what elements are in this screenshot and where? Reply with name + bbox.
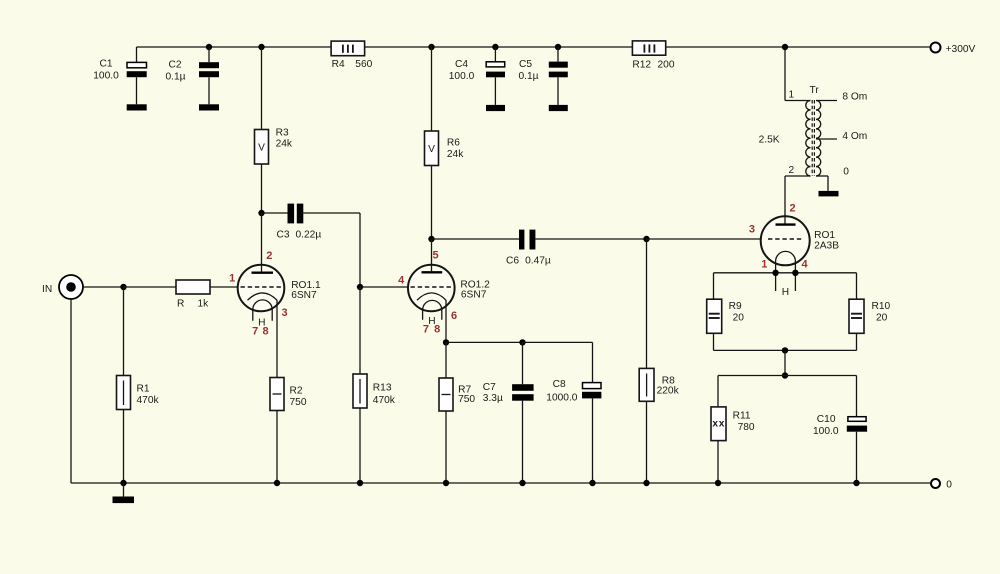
resistor R6	[425, 44, 465, 239]
wire tap 0	[816, 175, 828, 177]
resistor R4	[331, 41, 373, 70]
svg-text:24k: 24k	[276, 138, 293, 149]
svg-text:3: 3	[282, 307, 288, 319]
tube RO1.2	[398, 250, 490, 336]
svg-text:6SN7: 6SN7	[461, 289, 487, 300]
svg-text:C1: C1	[99, 59, 112, 70]
tube RO1.1	[229, 250, 321, 337]
svg-text:24k: 24k	[447, 149, 464, 160]
svg-text:1000.0: 1000.0	[546, 392, 577, 403]
svg-text:C3: C3	[277, 230, 290, 241]
svg-text:R10: R10	[872, 301, 891, 312]
svg-text:2: 2	[788, 165, 794, 176]
svg-text:7: 7	[423, 323, 429, 335]
svg-text:4: 4	[398, 275, 405, 287]
svg-text:7: 7	[252, 326, 258, 338]
svg-text:R3: R3	[276, 128, 289, 139]
resistor R7	[439, 378, 475, 483]
ground C5	[549, 105, 568, 111]
svg-text:470k: 470k	[137, 395, 160, 406]
ground C4	[486, 105, 505, 111]
svg-text:R4: R4	[332, 59, 345, 70]
wire top supply rail	[137, 46, 931, 48]
svg-text:2: 2	[789, 203, 795, 215]
svg-text:560: 560	[355, 59, 372, 70]
svg-text:C6: C6	[506, 256, 519, 267]
svg-text:R2: R2	[290, 386, 303, 397]
svg-text:20: 20	[876, 312, 888, 323]
transformer Tr primary feed	[784, 47, 786, 101]
wire C3 to grid of RO1.2	[359, 213, 361, 287]
ground C1	[127, 104, 147, 110]
svg-text:0.47µ: 0.47µ	[525, 256, 551, 267]
wire bottom ground rail	[71, 482, 931, 484]
svg-text:R9: R9	[729, 301, 742, 312]
capacitor C2	[165, 44, 219, 105]
svg-text:3: 3	[749, 224, 755, 236]
svg-text:xx: xx	[712, 418, 725, 429]
svg-text:4: 4	[802, 258, 809, 270]
svg-text:1k: 1k	[198, 298, 210, 309]
resistor R8	[639, 239, 679, 483]
wire to cathode bias row	[784, 350, 786, 375]
svg-text:0: 0	[843, 167, 849, 178]
capacitor C10	[813, 376, 867, 484]
svg-text:Tr: Tr	[810, 85, 820, 96]
capacitor C6	[428, 230, 646, 267]
svg-text:H: H	[782, 287, 789, 298]
wire IN to R	[83, 286, 124, 288]
resistor R9	[707, 273, 745, 351]
svg-text:8: 8	[263, 326, 269, 338]
resistor R2	[270, 378, 307, 484]
wire anode RO1.2	[431, 239, 433, 272]
svg-text:1: 1	[229, 273, 235, 285]
tube RO1	[749, 203, 839, 298]
svg-text:750: 750	[290, 397, 307, 408]
resistor R11	[711, 376, 755, 484]
wire filament row RO1	[714, 272, 857, 274]
resistor R3	[255, 44, 293, 213]
svg-text:6SN7: 6SN7	[291, 290, 317, 301]
capacitor C4	[449, 44, 505, 105]
svg-text:780: 780	[738, 422, 755, 433]
terminal +300V	[931, 43, 941, 53]
resistor R12	[632, 41, 674, 70]
resistor R1	[117, 287, 160, 483]
svg-text:8 Om: 8 Om	[842, 92, 867, 103]
wire C6 to grid of RO1	[643, 236, 649, 242]
capacitor C3	[258, 204, 360, 241]
svg-text:5: 5	[432, 250, 438, 262]
resistor R13	[353, 287, 396, 483]
svg-text:0.22µ: 0.22µ	[296, 230, 322, 241]
svg-text:20: 20	[733, 312, 745, 323]
ground transformer	[819, 191, 839, 197]
terminal 0	[931, 479, 940, 488]
svg-text:C8: C8	[553, 379, 566, 390]
svg-text:R11: R11	[733, 411, 751, 422]
svg-text:C2: C2	[168, 60, 181, 71]
svg-text:100.0: 100.0	[813, 426, 839, 437]
svg-text:2A3B: 2A3B	[814, 240, 839, 251]
wire R9 R10 bottom row	[714, 349, 857, 351]
svg-text:0: 0	[946, 479, 952, 490]
wire R to grid of RO1.1	[210, 286, 238, 288]
svg-text:IN: IN	[42, 284, 52, 295]
svg-text:C4: C4	[455, 59, 468, 70]
svg-text:R12: R12	[632, 59, 651, 70]
svg-text:C10: C10	[817, 414, 836, 425]
svg-text:100.0: 100.0	[93, 71, 119, 82]
capacitor C1	[93, 47, 146, 104]
svg-text:R6: R6	[447, 138, 460, 149]
svg-text:0.1µ: 0.1µ	[165, 72, 185, 83]
svg-text:2.5K: 2.5K	[759, 135, 780, 146]
svg-text:750: 750	[458, 394, 475, 405]
capacitor C5	[518, 44, 567, 105]
ground C2	[199, 104, 219, 110]
svg-text:C7: C7	[483, 382, 496, 393]
capacitor C8	[546, 379, 601, 483]
svg-text:8: 8	[434, 323, 440, 335]
wire anode RO1.1	[261, 213, 263, 272]
svg-text:470k: 470k	[373, 395, 396, 406]
capacitor C7	[483, 342, 534, 483]
svg-text:+300V: +300V	[946, 44, 976, 55]
svg-text:0.1µ: 0.1µ	[518, 71, 538, 82]
svg-text:220k: 220k	[657, 386, 680, 397]
svg-text:V: V	[428, 144, 435, 155]
wire cathode row to C7 C8	[446, 341, 523, 343]
wire left column from IN	[70, 299, 72, 483]
transformer Tr	[759, 85, 821, 176]
resistor R10	[849, 273, 891, 351]
wire tap 8 Om	[816, 100, 837, 102]
svg-text:100.0: 100.0	[449, 71, 475, 82]
svg-text:3.3µ: 3.3µ	[483, 393, 503, 404]
svg-text:2: 2	[266, 250, 272, 262]
svg-text:R1: R1	[137, 384, 150, 395]
wire tap 4 Om	[816, 138, 837, 140]
junction dots bottom rail	[120, 480, 126, 486]
svg-text:1: 1	[761, 258, 767, 270]
svg-text:4 Om: 4 Om	[842, 131, 867, 142]
resistor R 1k	[176, 280, 210, 309]
svg-text:V: V	[258, 142, 265, 153]
svg-text:R13: R13	[373, 382, 392, 393]
svg-text:C5: C5	[519, 59, 532, 70]
svg-text:6: 6	[451, 310, 457, 322]
svg-text:1: 1	[788, 90, 794, 101]
ground main	[123, 483, 125, 497]
svg-text:R: R	[177, 298, 184, 309]
wire cathode RO1.1 to R2	[276, 300, 278, 378]
svg-text:200: 200	[658, 59, 675, 70]
wire cathode RO1.2	[445, 300, 447, 342]
input terminal IN	[42, 275, 83, 299]
